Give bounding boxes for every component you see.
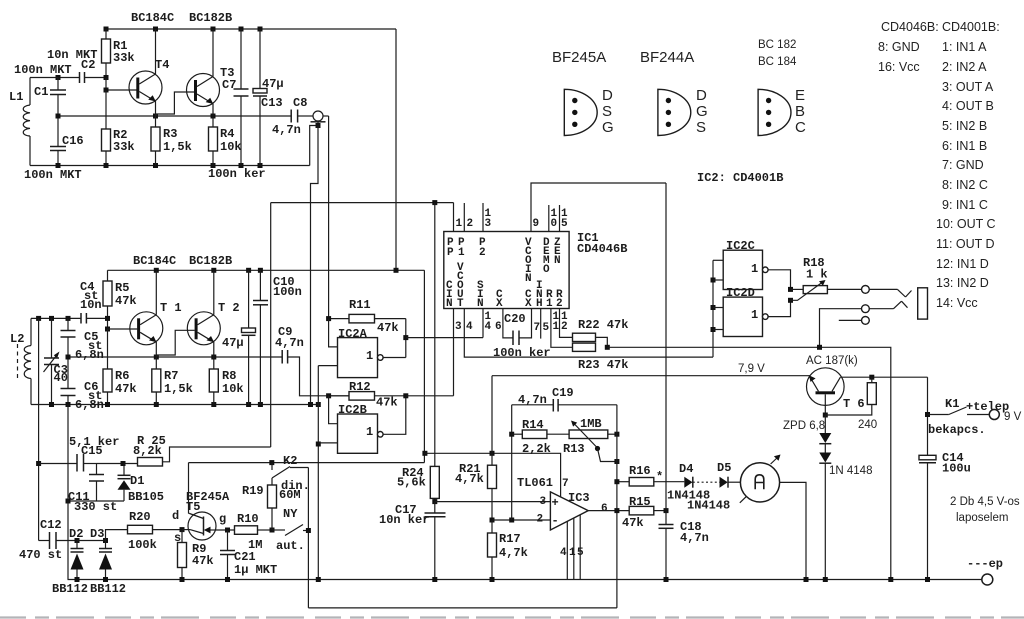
svg-text:BB112: BB112 — [52, 582, 88, 596]
wire R25 right jog to pin1 column — [163, 447, 271, 462]
wire ground row osc2 — [31, 402, 321, 407]
resistor R14 — [509, 418, 569, 456]
capacitor C8 — [272, 96, 313, 137]
resistor R1 — [102, 29, 135, 78]
svg-text:O: O — [543, 264, 550, 276]
wire R22/R23 ground row to right rail — [607, 347, 891, 579]
svg-text:BB105: BB105 — [128, 490, 164, 504]
svg-text:1: 1 — [751, 262, 758, 276]
resistor R20 — [128, 510, 185, 552]
headphone jack contacts — [827, 286, 911, 298]
pin 9 VCOIN wire — [531, 183, 666, 232]
svg-text:R12: R12 — [349, 380, 371, 394]
wire main bottom rail — [68, 577, 982, 582]
capacitor C15 — [39, 435, 120, 472]
wire R12 node to IC1 pin3 — [403, 393, 453, 398]
svg-text:D: D — [696, 87, 707, 104]
svg-text:4,7n: 4,7n — [275, 336, 304, 350]
svg-text:1: 1 — [751, 308, 758, 322]
svg-text:C15: C15 — [81, 444, 103, 458]
pin 15 — [560, 205, 569, 232]
svg-text:1N4148: 1N4148 — [687, 499, 730, 513]
svg-text:IC2B: IC2B — [338, 403, 367, 417]
resistor R8 — [209, 357, 243, 405]
inductor L1 — [9, 78, 58, 166]
svg-text:1: 1 — [553, 321, 560, 333]
svg-text:0: 0 — [551, 218, 558, 230]
resistor R25 — [133, 434, 166, 466]
meter A — [740, 455, 781, 503]
resistor R22 — [573, 318, 629, 347]
svg-text:47k: 47k — [192, 554, 214, 568]
svg-text:4: 4 — [485, 321, 492, 333]
svg-text:5: 5 — [561, 218, 568, 230]
svg-text:L1: L1 — [9, 90, 23, 104]
svg-text:1,5k: 1,5k — [163, 140, 192, 154]
svg-text:10: OUT C: 10: OUT C — [936, 217, 996, 231]
wire pin1 row — [271, 200, 454, 205]
svg-text:d: d — [172, 509, 179, 523]
svg-text:10n: 10n — [80, 298, 102, 312]
svg-text:bekapcs.: bekapcs. — [928, 423, 986, 437]
svg-text:R4: R4 — [220, 127, 234, 141]
svg-text:10k: 10k — [220, 140, 242, 154]
svg-text:1: 1 — [366, 349, 373, 363]
svg-text:1,5k: 1,5k — [164, 382, 193, 396]
svg-text:1: IN1 A: 1: IN1 A — [942, 40, 987, 54]
svg-text:D5: D5 — [717, 461, 731, 475]
terminal ep — [967, 557, 1003, 585]
capacitor C10 — [253, 270, 302, 404]
svg-text:N: N — [477, 298, 484, 310]
svg-text:N: N — [554, 255, 561, 267]
svg-text:E: E — [795, 87, 805, 104]
node rail2 dots — [154, 268, 399, 273]
pin 11 to R23 — [551, 309, 573, 348]
pin 6 and capacitor C20 — [493, 309, 551, 361]
svg-text:R14: R14 — [522, 418, 544, 432]
package BF244A — [658, 87, 708, 136]
svg-text:ZPD 6,8: ZPD 6,8 — [783, 420, 825, 432]
svg-text:B: B — [795, 103, 805, 120]
svg-text:1: 1 — [546, 298, 553, 310]
svg-text:100u: 100u — [942, 462, 971, 476]
svg-text:5: 5 — [543, 322, 550, 334]
wire osc2 gnd drop to C11 and main rail — [67, 405, 69, 580]
svg-text:100n MKT: 100n MKT — [24, 168, 82, 182]
svg-text:R22 47k: R22 47k — [578, 318, 628, 332]
svg-text:D4: D4 — [679, 462, 693, 476]
svg-text:1MB: 1MB — [580, 417, 602, 431]
svg-text:D3: D3 — [90, 527, 104, 541]
svg-text:C19: C19 — [552, 386, 574, 400]
transistor T6 AC187 — [806, 355, 865, 418]
pin 12 to R22 — [560, 309, 573, 338]
svg-text:D1: D1 — [130, 474, 144, 488]
resistor R16 — [614, 464, 684, 486]
svg-text:100n MKT: 100n MKT — [14, 63, 72, 77]
svg-text:9: 9 — [533, 218, 540, 230]
jack plug body — [918, 288, 928, 319]
IC1 inner bottom labels — [446, 262, 563, 310]
resistor R15 — [622, 495, 669, 530]
svg-text:IC2A: IC2A — [338, 327, 368, 341]
svg-text:9 V: 9 V — [1004, 411, 1022, 423]
svg-text:14: Vcc: 14: Vcc — [936, 296, 978, 310]
svg-text:47k: 47k — [376, 396, 398, 410]
svg-text:C20: C20 — [504, 312, 526, 326]
wire aut feedback rail — [306, 468, 617, 608]
pin 5 stub — [541, 309, 550, 339]
pin 3 — [454, 309, 463, 396]
wire IC2D output — [768, 300, 790, 316]
svg-text:R11: R11 — [349, 298, 371, 312]
svg-text:47k: 47k — [622, 516, 644, 530]
wire tank tap down to C15 — [38, 318, 40, 540]
svg-text:12: IN1 D: 12: IN1 D — [936, 257, 989, 271]
svg-text:+telep: +telep — [966, 400, 1009, 414]
svg-text:T: T — [457, 298, 464, 310]
switch K2 din contact — [272, 454, 310, 493]
diode 1N4148 under zener — [819, 444, 872, 580]
svg-text:-: - — [552, 514, 559, 528]
resistor R9 — [178, 530, 214, 580]
pin 4 1 5 stubs — [560, 515, 584, 580]
svg-text:4,7n: 4,7n — [272, 123, 301, 137]
wire VCOIN column — [665, 183, 667, 525]
wire gnd row link to probe — [310, 126, 316, 166]
capacitor C2 — [47, 48, 97, 83]
wire 7.9V line — [492, 375, 810, 377]
svg-text:BF244A: BF244A — [640, 49, 694, 66]
svg-text:2: IN2 A: 2: IN2 A — [942, 60, 987, 74]
svg-text:2: 2 — [537, 514, 544, 526]
svg-text:3: OUT A: 3: OUT A — [942, 80, 994, 94]
wire op-amp plus input row — [435, 501, 551, 503]
svg-text:4,7n: 4,7n — [518, 393, 547, 407]
svg-text:+: + — [552, 496, 559, 510]
svg-text:2: 2 — [467, 218, 474, 230]
svg-text:C: C — [795, 119, 806, 136]
gate IC2D — [723, 286, 768, 337]
switch K1 — [928, 397, 1022, 437]
capacitor C19 — [512, 386, 617, 412]
svg-text:2: 2 — [556, 298, 563, 310]
svg-text:R19: R19 — [242, 484, 264, 498]
resistor R23 — [573, 343, 629, 372]
svg-text:1: 1 — [456, 218, 463, 230]
wire op-amp output — [588, 508, 629, 513]
svg-text:R15: R15 — [629, 495, 651, 509]
svg-text:AC 187(k): AC 187(k) — [806, 355, 858, 367]
svg-text:47k: 47k — [115, 294, 137, 308]
svg-text:9: IN1 C: 9: IN1 C — [942, 198, 988, 212]
variable capacitor C3 — [44, 318, 68, 404]
gate IC2C — [723, 239, 768, 290]
svg-text:CD4046B: CD4046B — [577, 242, 627, 256]
wire T6 collector row — [840, 375, 927, 380]
svg-text:G: G — [696, 103, 708, 120]
svg-text:BC 182: BC 182 — [758, 39, 796, 51]
package BC182/184 — [758, 87, 806, 136]
resistor R3 — [151, 116, 192, 166]
capacitor C13 47u electrolytic — [253, 29, 284, 166]
svg-text:IC2C: IC2C — [726, 239, 755, 253]
svg-text:BC 184: BC 184 — [758, 56, 797, 68]
svg-text:16: Vcc: 16: Vcc — [878, 60, 920, 74]
svg-text:6,8n: 6,8n — [75, 348, 104, 362]
svg-text:47µ: 47µ — [262, 77, 284, 91]
pin 4 VCO out wire — [464, 309, 713, 358]
svg-text:40: 40 — [54, 371, 68, 385]
svg-text:C12: C12 — [40, 518, 62, 532]
svg-text:1: 1 — [366, 425, 373, 439]
svg-text:K2: K2 — [283, 454, 297, 468]
svg-text:R16: R16 — [629, 464, 651, 478]
svg-text:100n ker: 100n ker — [208, 167, 266, 181]
svg-text:7,9 V: 7,9 V — [738, 363, 765, 375]
wire ground row osc1 — [30, 163, 310, 181]
svg-text:5: 5 — [577, 547, 584, 559]
svg-text:R3: R3 — [163, 127, 177, 141]
capacitor C7 — [222, 29, 249, 166]
wire battery column — [925, 377, 930, 455]
capacitor C16 — [24, 116, 84, 182]
transistor T2 — [157, 270, 239, 357]
scan edge artifact bottom — [0, 616, 1024, 618]
svg-text:CD4046B:: CD4046B: — [881, 20, 939, 34]
package BF245A — [564, 87, 613, 136]
resistor R10 — [235, 512, 275, 552]
wire Vcc rail osc2 — [108, 269, 425, 271]
svg-text:100k: 100k — [128, 538, 157, 552]
svg-text:7: GND: 7: GND — [942, 158, 984, 172]
wire T5 gate row — [216, 528, 235, 533]
wire loop right column — [616, 405, 618, 608]
pin 2 — [464, 203, 473, 232]
svg-text:IC2D: IC2D — [726, 286, 755, 300]
svg-text:8,2k: 8,2k — [133, 444, 162, 458]
svg-text:240: 240 — [858, 419, 877, 431]
wire loop left drop — [511, 405, 513, 520]
capacitor C14 100u — [919, 451, 971, 580]
zener ZPD 6,8 — [783, 415, 831, 444]
wire Vcc drop right side to supply row — [423, 270, 425, 453]
svg-text:1: 1 — [569, 547, 576, 559]
varactor diode D3 BB112 — [77, 527, 126, 596]
wire meter to rail drop — [780, 482, 806, 579]
svg-text:T4: T4 — [155, 58, 169, 72]
resistor 240 — [825, 377, 877, 431]
resistor R21 — [455, 376, 497, 523]
svg-text:4,7k: 4,7k — [455, 472, 484, 486]
wire IC1 pin1 column — [270, 203, 272, 447]
svg-text:C16: C16 — [62, 134, 84, 148]
svg-text:CD4001B:: CD4001B: — [942, 20, 1000, 34]
svg-text:R20: R20 — [129, 510, 151, 524]
svg-text:C7: C7 — [222, 78, 236, 92]
wire emitter row osc1 — [56, 114, 292, 119]
svg-text:G: G — [602, 119, 614, 136]
svg-text:BC182B: BC182B — [189, 11, 232, 25]
resistor R24 — [397, 203, 439, 502]
svg-text:5,6k: 5,6k — [397, 476, 426, 490]
resistor R2 — [102, 90, 135, 166]
svg-text:470 st: 470 st — [19, 548, 62, 562]
svg-text:330 st: 330 st — [74, 500, 117, 514]
svg-text:---ep: ---ep — [967, 557, 1003, 571]
pin 10 — [549, 205, 558, 232]
svg-text:T 2: T 2 — [218, 301, 240, 315]
capacitor C11 — [68, 464, 117, 515]
svg-text:C1: C1 — [34, 85, 48, 99]
svg-text:6: IN1 B: 6: IN1 B — [942, 139, 987, 153]
wire D3 up to R20 — [106, 530, 128, 541]
svg-text:C13: C13 — [261, 96, 283, 110]
svg-text:4,7k: 4,7k — [499, 546, 528, 560]
svg-text:3: 3 — [455, 321, 462, 333]
svg-text:8: GND: 8: GND — [878, 40, 920, 54]
node C15 junction — [36, 461, 41, 466]
capacitor C6 — [61, 357, 104, 412]
wire drain supply row W2 — [189, 453, 425, 465]
svg-text:R10: R10 — [237, 512, 259, 526]
svg-text:100n: 100n — [273, 285, 302, 299]
svg-text:2 Db 4,5 V-os: 2 Db 4,5 V-os — [950, 496, 1020, 508]
wire tank top row osc2 — [31, 316, 110, 321]
svg-text:H: H — [536, 298, 543, 310]
svg-text:1M: 1M — [248, 538, 262, 552]
capacitor C9 — [275, 325, 349, 396]
transistor T4 — [129, 29, 169, 116]
svg-text:TL061: TL061 — [517, 476, 553, 490]
capacitor C4 — [80, 280, 102, 324]
potentiometer R18 — [788, 256, 828, 303]
svg-text:C8: C8 — [293, 96, 307, 110]
wire Vcc drop to osc2 rail — [395, 29, 397, 270]
wire Vcc rail osc1 — [106, 28, 396, 30]
svg-text:T 6: T 6 — [843, 397, 865, 411]
svg-text:T 1: T 1 — [160, 301, 182, 315]
svg-text:33k: 33k — [113, 51, 135, 65]
svg-text:N: N — [446, 298, 453, 310]
svg-text:2: 2 — [479, 247, 486, 259]
svg-text:47µ: 47µ — [222, 336, 244, 350]
svg-text:33k: 33k — [113, 140, 135, 154]
svg-text:1N 4148: 1N 4148 — [829, 465, 872, 477]
svg-text:BC182B: BC182B — [189, 254, 232, 268]
resistor R7 — [152, 357, 193, 405]
svg-text:6: 6 — [601, 503, 608, 515]
wire R11 right to output and pin14 row — [403, 319, 483, 358]
resistor R11 — [326, 298, 406, 335]
svg-text:R23 47k: R23 47k — [578, 358, 628, 372]
svg-text:D: D — [602, 87, 613, 104]
svg-text:laposelem: laposelem — [956, 512, 1008, 524]
svg-text:8: IN2 C: 8: IN2 C — [942, 178, 988, 192]
svg-text:6: 6 — [495, 321, 502, 333]
svg-text:BC184C: BC184C — [133, 254, 176, 268]
svg-text:X: X — [525, 298, 532, 310]
svg-text:1 k: 1 k — [806, 268, 828, 282]
svg-text:aut.: aut. — [276, 539, 305, 553]
connector probe circle — [311, 111, 329, 128]
svg-text:L2: L2 — [10, 332, 24, 346]
svg-text:47k: 47k — [115, 382, 137, 396]
resistor R4 — [209, 116, 242, 166]
svg-text:g: g — [219, 512, 226, 526]
capacitor C18 — [659, 520, 709, 580]
svg-text:R7: R7 — [164, 369, 178, 383]
svg-text:4: 4 — [560, 547, 567, 559]
resistor R19 — [242, 478, 301, 530]
svg-text:X: X — [496, 298, 503, 310]
IC1 inner top labels — [447, 237, 561, 285]
svg-text:4,7n: 4,7n — [680, 531, 709, 545]
resistor R6 — [103, 329, 137, 405]
wire T5 drain up to supply W2 — [188, 463, 190, 514]
svg-text:IC3: IC3 — [568, 491, 590, 505]
wire probe down to osc2 gnd — [311, 126, 319, 405]
pin 13 — [483, 203, 492, 232]
wire IC2A in2 drop to gnd/main rail — [316, 366, 321, 580]
switch K2 aut contact — [272, 525, 308, 554]
pin 14 — [483, 309, 492, 338]
capacitor C21 — [220, 530, 277, 580]
svg-text:R17: R17 — [499, 532, 521, 546]
resistor R12 — [326, 380, 406, 410]
svg-text:4: 4 — [466, 321, 473, 333]
wire emitter row osc2 — [66, 355, 283, 360]
svg-text:IC2: CD4001B: IC2: CD4001B — [697, 171, 783, 185]
svg-text:1µ MKT: 1µ MKT — [234, 563, 277, 577]
resistor R5 — [103, 270, 137, 329]
svg-text:1: 1 — [458, 247, 465, 259]
svg-text:NY: NY — [283, 507, 298, 521]
op-amp U IC3 triangle — [517, 476, 608, 530]
svg-text:S: S — [602, 103, 612, 120]
svg-text:11: OUT D: 11: OUT D — [936, 237, 995, 251]
svg-text:R8: R8 — [222, 369, 236, 383]
wire supply row 7.9V to TL061 pin7 — [422, 451, 560, 497]
diode D5 1N4148 — [687, 461, 740, 513]
svg-text:2,2k: 2,2k — [522, 442, 551, 456]
wire T4 base row — [104, 78, 137, 93]
potentiometer R13 1MB — [563, 417, 619, 464]
diode D4 1N4148 — [667, 462, 720, 503]
svg-text:BF245A: BF245A — [552, 49, 606, 66]
node rail dots osc1 — [104, 27, 263, 32]
resistor R17 — [488, 520, 528, 580]
svg-text:7: 7 — [534, 322, 541, 334]
svg-text:R5: R5 — [115, 281, 129, 295]
svg-text:K1: K1 — [945, 397, 959, 411]
svg-text:2: 2 — [561, 321, 568, 333]
svg-text:N: N — [525, 273, 532, 285]
capacitor C1 — [14, 63, 72, 116]
svg-text:P: P — [447, 247, 454, 259]
svg-text:3: 3 — [540, 496, 547, 508]
transistor T1 — [130, 270, 182, 357]
transistor T5 JFET — [172, 490, 230, 545]
wire C8 output down to IC2A input — [328, 116, 330, 319]
svg-text:3: 3 — [485, 218, 492, 230]
gate IC2B — [318, 396, 406, 454]
inductor L2 — [10, 318, 31, 404]
svg-text:*: * — [656, 470, 663, 484]
svg-text:10k: 10k — [222, 382, 244, 396]
svg-text:7: 7 — [562, 478, 569, 490]
